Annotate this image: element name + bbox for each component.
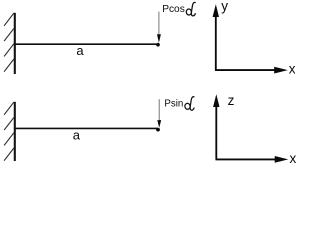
hatch W1-4 [4,59,14,72]
axes 1: y axis line [215,14,217,70]
force arrow F2 stem (Psin alpha) [158,99,160,121]
force arrow F1 head [157,34,161,43]
axes 2: x arrowhead [275,156,289,163]
axes 1: x axis line [215,69,277,71]
force arrow F1 stem (Pcos alpha) [158,12,160,36]
hatch W2-2 [4,117,14,130]
svg-text:Psin: Psin [164,98,183,109]
svg-text:y: y [221,0,228,14]
hatch W1-3 [4,44,14,57]
hatch W2-3 [4,133,14,146]
beam 1 (top cantilever) [15,43,158,45]
node: beam 1 free end dot [156,43,160,47]
wall W2 (bottom fixed support) [14,102,16,161]
axes 2: z arrowhead [213,94,219,107]
axes 2: x axis line [216,158,278,160]
wall W1 (top fixed support) [14,13,16,74]
label alpha (top, drawn script glyph) [186,2,195,16]
axes 1: x arrowhead [274,67,288,74]
label alpha (bottom, drawn script glyph) [185,97,195,111]
hatch W2-1 [4,102,14,115]
hatch W2-4 [4,148,14,161]
svg-text:a: a [76,43,84,58]
svg-text:x: x [290,151,297,166]
axes 1: y arrowhead [213,4,219,17]
hatch W1-1 [4,13,14,26]
svg-text:z: z [228,93,235,108]
hatch W1-2 [4,28,14,41]
svg-text:Pcos: Pcos [162,4,185,15]
svg-text:a: a [73,128,81,143]
force arrow F2 head [157,120,161,128]
node: beam 2 free end dot [156,128,160,132]
svg-text:x: x [289,62,296,77]
beam 2 (bottom cantilever) [15,127,158,129]
axes 2: z axis line [215,104,217,159]
